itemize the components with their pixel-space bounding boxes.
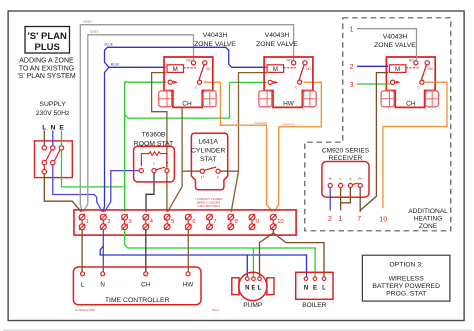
svg-text:CM920 SERIES: CM920 SERIES bbox=[322, 148, 370, 155]
svg-text:BLUE: BLUE bbox=[111, 62, 119, 66]
terminal 1 bbox=[79, 214, 89, 230]
svg-text:5: 5 bbox=[171, 219, 174, 225]
svg-text:BOILER: BOILER bbox=[302, 302, 326, 309]
brown wire HW valve motor to cyl stat C and strip terminal 8 bbox=[220, 73, 266, 212]
brown wire CH valve tail to cyl stat 1* and strip terminal 5 bbox=[168, 108, 201, 212]
wire supply E lead-in (green) bbox=[61, 131, 63, 146]
terminal 10 bbox=[270, 214, 283, 230]
svg-text:NO: NO bbox=[186, 58, 191, 62]
brown wire V3 motor to receiver B* bbox=[360, 73, 388, 211]
brown wire CH valve motor to room stat terminal 3 bbox=[152, 73, 167, 169]
cylinder stat footnote bbox=[195, 197, 222, 208]
node 2 marker (additional zone) bbox=[350, 64, 354, 71]
pump body bbox=[232, 272, 274, 309]
svg-text:OPTION 3:: OPTION 3: bbox=[389, 262, 423, 269]
terminal 3 bbox=[122, 214, 132, 230]
supply label bbox=[36, 101, 70, 132]
svg-text:NC: NC bbox=[206, 67, 211, 71]
svg-text:'S' PLAN: 'S' PLAN bbox=[28, 31, 67, 42]
svg-text:7: 7 bbox=[357, 216, 361, 223]
svg-text:10: 10 bbox=[277, 219, 283, 225]
svg-text:L: L bbox=[258, 286, 262, 292]
svg-text:NC: NC bbox=[428, 67, 433, 71]
black wire room stat terminal 1 to strip terminal 4 bbox=[146, 173, 154, 212]
node 2 marker (receiver) bbox=[328, 216, 332, 223]
svg-text:BLUE: BLUE bbox=[105, 43, 113, 47]
svg-text:M: M bbox=[395, 66, 400, 73]
node 3 marker (additional zone) bbox=[350, 82, 354, 89]
wire supply L lead-in (brown) bbox=[43, 131, 45, 146]
svg-text:PROG. STAT: PROG. STAT bbox=[386, 291, 426, 298]
svg-text:HW: HW bbox=[183, 281, 194, 288]
svg-text:GREY: GREY bbox=[90, 30, 100, 34]
orange wire V3 C to node 10 bbox=[383, 82, 447, 208]
blue wire receiver N to node 2 bbox=[329, 188, 331, 211]
svg-text:M: M bbox=[173, 66, 178, 73]
cylinder stat L641A body bbox=[191, 133, 228, 190]
svg-text:HW: HW bbox=[283, 101, 295, 108]
node 10 marker (receiver) bbox=[379, 216, 387, 223]
brown wire receiver B* to node 7 bbox=[359, 188, 361, 212]
green E branch to HW valve earth bbox=[125, 82, 267, 118]
terminal 2 bbox=[100, 214, 110, 230]
terminal 5 bbox=[164, 214, 174, 230]
additional heating zone label bbox=[408, 208, 448, 230]
svg-text:HEATING: HEATING bbox=[414, 216, 443, 223]
zone valve V2 (HW) body bbox=[259, 57, 316, 108]
svg-text:NC: NC bbox=[306, 67, 311, 71]
svg-text:L: L bbox=[322, 286, 326, 292]
svg-text:CYLINDER: CYLINDER bbox=[191, 147, 225, 154]
room stat T6360B body bbox=[134, 146, 175, 182]
svg-text:L: L bbox=[81, 281, 85, 288]
node 1 marker (receiver) bbox=[338, 216, 342, 223]
svg-text:9: 9 bbox=[256, 219, 259, 225]
copyright note bbox=[75, 308, 95, 312]
orange wire HW valve C to strip terminal 10 bbox=[274, 82, 321, 212]
svg-text:NO: NO bbox=[409, 58, 414, 62]
svg-text:M: M bbox=[273, 66, 278, 73]
blue wire room stat terminal 2 to strip terminal 2 bbox=[105, 171, 139, 212]
wire supply N lead-in (blue) bbox=[52, 131, 54, 146]
svg-text:PLUS: PLUS bbox=[35, 42, 60, 53]
svg-text:1: 1 bbox=[350, 27, 354, 34]
svg-text:NO: NO bbox=[287, 58, 292, 62]
wire supply L to terminal 1 (brown) bbox=[44, 174, 81, 212]
svg-text:ZONE VALVE: ZONE VALVE bbox=[194, 41, 236, 48]
svg-text:N: N bbox=[245, 286, 249, 292]
green wire terminal 3 to pump and boiler E bbox=[125, 230, 316, 277]
svg-text:L641A: L641A bbox=[198, 139, 218, 146]
zone valve V3 (additional CH) body bbox=[381, 57, 438, 108]
terminal 9 bbox=[249, 214, 259, 230]
svg-text:2: 2 bbox=[328, 216, 332, 223]
svg-text:N: N bbox=[304, 286, 308, 292]
svg-text:ORANGE: ORANGE bbox=[255, 121, 268, 125]
svg-text:1: 1 bbox=[153, 162, 155, 166]
receiver CM920 label bbox=[322, 148, 370, 163]
svg-text:T6360B: T6360B bbox=[142, 132, 166, 139]
svg-text:3: 3 bbox=[129, 219, 132, 225]
svg-text:6: 6 bbox=[192, 219, 195, 225]
title block 'S' PLAN PLUS bbox=[17, 27, 75, 81]
blue wire terminal 2 to pump and boiler N bbox=[100, 246, 306, 277]
blue wire terminal 2 to controller N bbox=[102, 230, 104, 272]
zone valve V1 (CH) body bbox=[159, 57, 216, 108]
svg-text:7: 7 bbox=[213, 219, 216, 225]
svg-text:ZONE: ZONE bbox=[419, 223, 438, 230]
grey bus 2: terminal 1 to CH valve NO bbox=[83, 30, 193, 212]
svg-text:ZONE VALVE: ZONE VALVE bbox=[374, 42, 416, 49]
additional heating zone dashed boundary bbox=[305, 18, 451, 231]
svg-text:10: 10 bbox=[379, 216, 387, 223]
svg-text:BATTERY POWERED: BATTERY POWERED bbox=[372, 283, 440, 290]
svg-text:GREY: GREY bbox=[83, 20, 93, 24]
svg-text:2: 2 bbox=[350, 64, 354, 71]
svg-text:TO AN EXISTING: TO AN EXISTING bbox=[19, 65, 75, 72]
svg-text:CH: CH bbox=[141, 281, 151, 288]
brown wire terminal 10 to pump L and boiler L bbox=[260, 230, 325, 277]
green wire node 3 to V3 earth bbox=[357, 83, 391, 85]
svg-text:ADDITIONAL: ADDITIONAL bbox=[408, 208, 448, 215]
svg-text:CH: CH bbox=[182, 101, 192, 108]
svg-text:V4043H: V4043H bbox=[265, 32, 290, 39]
terminal 6 bbox=[185, 214, 195, 230]
orange wire CH valve C to strip terminal 10 bbox=[204, 82, 273, 212]
svg-text:8: 8 bbox=[235, 219, 238, 225]
svg-text:CH: CH bbox=[406, 101, 416, 108]
wire supply N to terminal 2 (blue) bbox=[53, 165, 102, 212]
svg-text:TIME CONTROLLER: TIME CONTROLLER bbox=[105, 297, 170, 304]
svg-text:V4043H: V4043H bbox=[383, 33, 408, 40]
boiler body bbox=[296, 272, 333, 309]
black wire terminal 4 to controller CH bbox=[145, 230, 147, 272]
wire supply E through box to E-bus (green) bbox=[62, 150, 124, 187]
brown wire room stat terminal 3 to strip terminal 5 bbox=[166, 173, 168, 212]
svg-text:N: N bbox=[100, 281, 105, 288]
blue wire node 2 to V3 motor bbox=[357, 65, 388, 67]
svg-text:1: 1 bbox=[86, 219, 89, 225]
svg-text:'S' PLAN SYSTEM: 'S' PLAN SYSTEM bbox=[17, 73, 75, 80]
svg-text:L: L bbox=[340, 177, 342, 181]
terminal strip TB1 bbox=[74, 210, 296, 235]
svg-text:V4043H: V4043H bbox=[203, 32, 228, 39]
supply isolator SW1 bbox=[35, 141, 73, 178]
brown wire terminal 6 to controller HW bbox=[187, 230, 189, 272]
svg-text:2: 2 bbox=[107, 219, 110, 225]
zone valve V1 label bbox=[194, 32, 236, 48]
zone valve V3 label bbox=[374, 33, 416, 49]
receiver CM920 body bbox=[322, 162, 369, 198]
svg-text:2: 2 bbox=[140, 162, 142, 166]
svg-text:230V 50Hz: 230V 50Hz bbox=[36, 110, 70, 117]
svg-text:THAN SET POINT: THAN SET POINT bbox=[197, 204, 220, 208]
svg-text:N: N bbox=[50, 125, 55, 132]
green E bus: terminal 3 up to CH valve earth bbox=[125, 82, 166, 212]
svg-text:ORANGE: ORANGE bbox=[282, 123, 295, 127]
svg-text:E: E bbox=[251, 286, 255, 292]
svg-text:1: 1 bbox=[338, 216, 342, 223]
svg-text:ZONE VALVE: ZONE VALVE bbox=[256, 41, 298, 48]
room stat T6360B label bbox=[134, 132, 173, 148]
svg-text:3: 3 bbox=[350, 82, 354, 89]
option 3 note box bbox=[362, 255, 450, 301]
svg-text:L: L bbox=[42, 125, 46, 132]
grey wire node 1 to V3 NO bbox=[357, 29, 417, 60]
revision note bbox=[212, 308, 219, 312]
svg-text:WIRELESS: WIRELESS bbox=[389, 275, 425, 282]
terminal 8 bbox=[228, 214, 238, 230]
svg-text:ADDING A ZONE: ADDING A ZONE bbox=[19, 58, 74, 65]
svg-text:SUPPLY: SUPPLY bbox=[39, 101, 66, 108]
svg-text:STAT: STAT bbox=[200, 156, 216, 163]
brown wire receiver L to node 1 bbox=[340, 188, 342, 211]
svg-text:E: E bbox=[59, 125, 64, 132]
zone valve V2 label bbox=[256, 32, 298, 48]
svg-text:PUMP: PUMP bbox=[243, 302, 263, 309]
time controller body bbox=[73, 267, 201, 305]
svg-text:(c) Drawing 2006: (c) Drawing 2006 bbox=[75, 308, 95, 312]
node 7 marker (receiver) bbox=[357, 216, 361, 223]
node 1 marker (additional zone) bbox=[350, 27, 354, 34]
terminal 4 bbox=[143, 214, 154, 230]
grey bus 1: terminal 1 to HW valve NO bbox=[80, 20, 293, 212]
brown wire terminal 1 to controller L bbox=[81, 230, 83, 272]
svg-text:E: E bbox=[313, 286, 317, 292]
svg-text:Rev b: Rev b bbox=[212, 308, 219, 312]
terminal 7 bbox=[207, 214, 217, 230]
blue N bus: terminal 2 to CH + HW valve motors bbox=[103, 43, 266, 212]
brown jumper receiver A to L bbox=[341, 188, 351, 203]
